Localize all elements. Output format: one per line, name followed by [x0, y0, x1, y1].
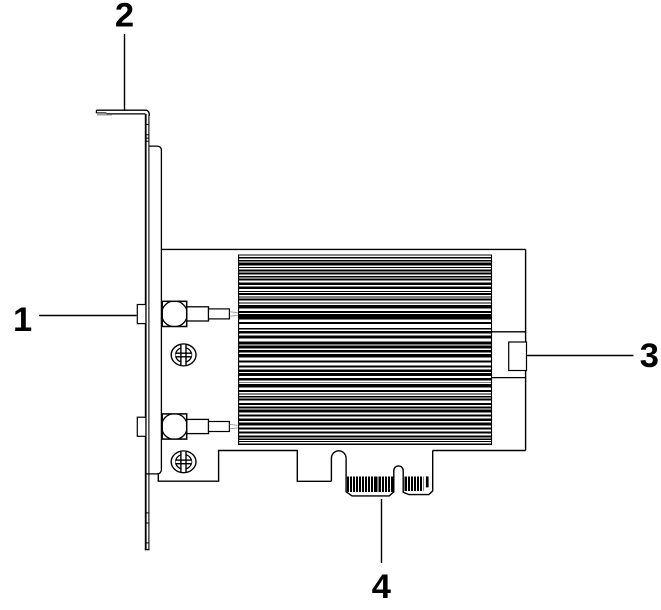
edge connector outline — [346, 451, 433, 496]
bracket flange (top tab) — [96, 110, 149, 116]
antenna nut — [137, 417, 146, 436]
antenna shaft — [187, 419, 209, 433]
bracket ticks — [146, 123, 149, 125]
antenna connector 1 — [137, 301, 238, 327]
callout line 1 — [39, 315, 137, 317]
right connector section lines — [492, 331, 526, 333]
antenna body square — [162, 414, 187, 439]
antenna body circle — [162, 301, 188, 327]
callout line 4 — [381, 499, 383, 563]
gold fingers group B — [379, 476, 394, 492]
card right edge — [525, 249, 527, 450]
callout line 2 — [124, 34, 126, 111]
card bottom right segment — [433, 450, 526, 452]
screw 1 — [171, 344, 196, 366]
antenna thread marks — [230, 312, 238, 313]
card top edge — [161, 248, 525, 250]
callout line 3 — [526, 355, 634, 357]
gold fingers group A — [347, 476, 377, 492]
antenna nut — [137, 305, 146, 324]
svg-text:3: 3 — [640, 337, 659, 375]
antenna tip — [209, 422, 230, 432]
antenna shaft — [187, 307, 209, 321]
bracket bottom cap — [145, 549, 150, 551]
antenna tip — [209, 309, 230, 319]
svg-text:1: 1 — [13, 301, 32, 339]
bracket vertical strip — [145, 114, 150, 550]
face plate — [146, 146, 162, 474]
hump arc — [331, 451, 346, 481]
antenna body square — [162, 301, 187, 326]
antenna body circle — [162, 414, 188, 440]
right tab (item 3) — [509, 342, 527, 371]
screw 2 — [171, 451, 196, 473]
gold fingers group C — [405, 476, 424, 491]
svg-text:4: 4 — [372, 568, 391, 605]
heatsink side edges — [238, 255, 240, 446]
antenna thread marks — [230, 424, 238, 425]
card bottom step segments — [158, 451, 331, 482]
antenna connector 2 — [137, 414, 238, 440]
svg-text:2: 2 — [115, 0, 134, 34]
flange lip shading — [97, 114, 112, 116]
gold finger end bar — [426, 476, 429, 487]
heatsink fins — [239, 255, 492, 446]
